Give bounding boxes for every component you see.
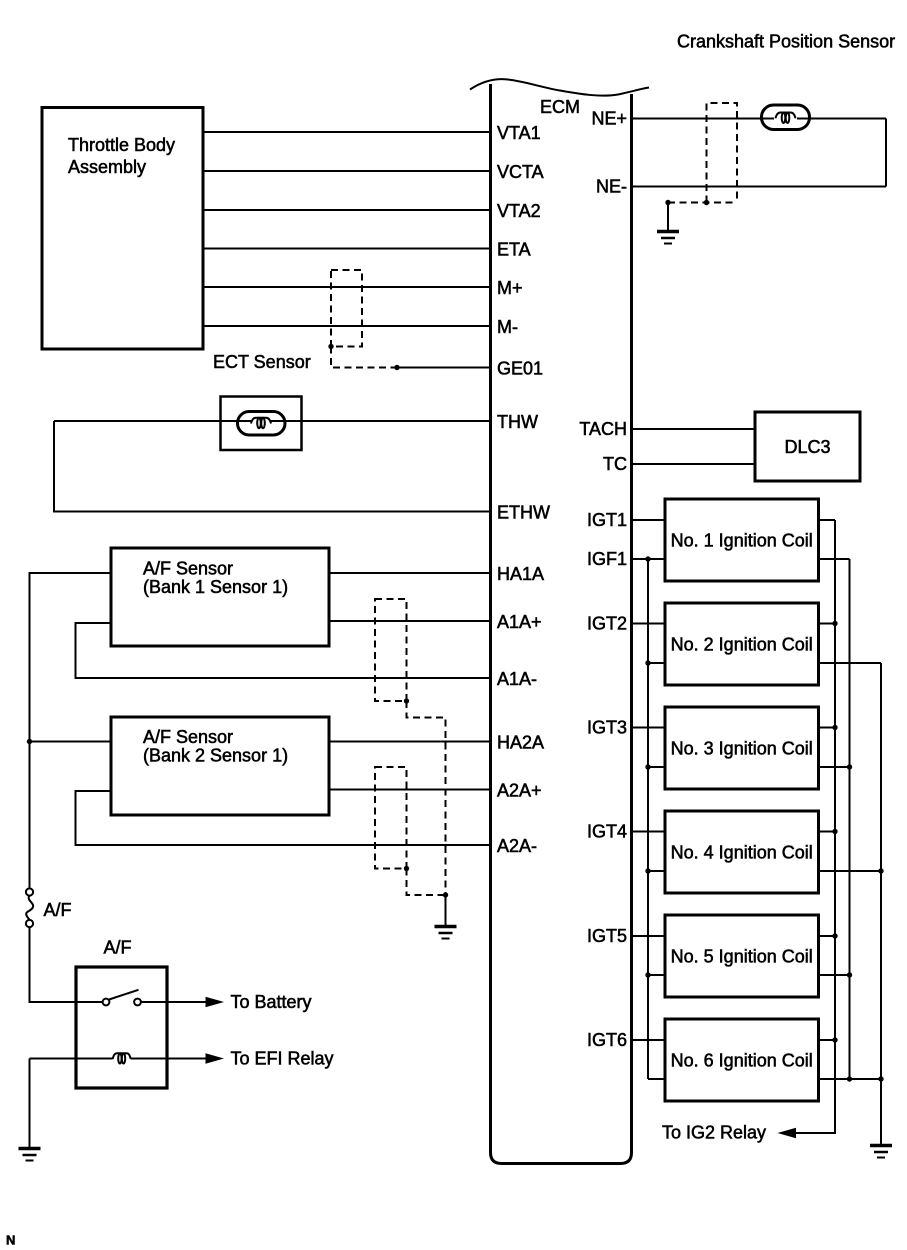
fuse A/F terminal bottom [26,920,33,927]
wire coil3 ground pin [819,766,850,768]
fuse A/F element squiggle [26,896,33,920]
ground (relay coil) [19,1149,41,1161]
wire coil2 ground pin [819,662,882,664]
wire ECT return (left leg down) [54,421,491,512]
Throttle Body Assembly block [42,108,203,350]
ground (NE shield) [657,232,679,244]
ECM torn-top wave [470,79,649,95]
relay coil winding [113,1053,131,1063]
svg-text:No. 2 Ignition Coil: No. 2 Ignition Coil [671,635,813,655]
wire IGT3 [632,727,666,729]
shield drain wire (dashed) A1A [407,701,446,895]
wire GE01 [397,367,491,369]
node: bank2 heater tap [27,739,32,744]
wire A/F heater supply (bank1 left pin to fuse) [30,573,112,889]
wire IGF3 [648,766,665,768]
wire IGF5 [648,974,665,976]
svg-text:VTA2: VTA2 [497,201,541,221]
wire coil3 +B [819,727,836,729]
svg-text:TC: TC [603,454,627,474]
svg-text:A/F Sensor: A/F Sensor [143,727,233,747]
node: IGF bus tap 3 [645,764,650,769]
wire coil5 ground pin [819,974,850,976]
svg-text:Assembly: Assembly [68,157,146,177]
relay switch contact left [103,999,110,1006]
node: gnd bus2 tap 3 [847,764,852,769]
svg-text:To EFI Relay: To EFI Relay [231,1049,334,1069]
svg-text:A/F: A/F [44,900,72,920]
svg-text:M+: M+ [497,278,523,298]
svg-text:NE-: NE- [596,177,627,197]
wire HA1A [329,572,491,574]
wire TC [632,463,756,465]
wire coil6 +B [819,1039,836,1041]
wire NE+ [632,118,887,120]
wire IGT4 [632,831,666,833]
wire NE loop right side [885,119,887,187]
svg-text:TACH: TACH [579,419,627,439]
svg-text:No. 3 Ignition Coil: No. 3 Ignition Coil [671,739,813,759]
wire HA2A [329,741,491,743]
wire relay coil feed [30,1058,208,1060]
svg-text:N: N [6,1233,15,1248]
svg-text:IGT3: IGT3 [587,718,627,738]
wire IGT6 [632,1039,666,1041]
wire THW [54,420,491,422]
wire VTA1 [203,131,491,133]
wire relay coil to ground [29,1059,31,1148]
svg-text:IGT4: IGT4 [587,822,627,842]
svg-text:ECT Sensor: ECT Sensor [213,352,311,372]
No. 4 Ignition Coil block [665,811,819,893]
node: A1A shield drain [404,698,409,703]
arrow to IG2 relay [778,1128,797,1138]
svg-text:No. 4 Ignition Coil: No. 4 Ignition Coil [671,843,813,863]
node: +B bus tap 2 [832,621,837,626]
node: NE shield corner [704,200,709,205]
relay A/F block [76,967,167,1088]
svg-text:IGT2: IGT2 [587,614,627,634]
No. 5 Ignition Coil block [665,915,819,997]
svg-text:ETHW: ETHW [497,503,550,523]
wire fuse to relay switch [30,927,103,1002]
svg-text:IGT5: IGT5 [587,926,627,946]
ECT sensor element (pill) [238,412,286,436]
wire IGF6 (bus end corner) [648,1078,665,1080]
wire coil1 ground pin [819,558,850,560]
No. 3 Ignition Coil block [665,707,819,789]
svg-text:A/F: A/F [104,938,132,958]
node: gnd bus3 tap 4 [878,868,883,873]
svg-text:To IG2 Relay: To IG2 Relay [662,1123,766,1143]
node: gnd bus3 tap 6 [878,1076,883,1081]
ground bus2 (coils) [849,559,851,1079]
wire IGF1 [632,558,666,560]
wire IGT1 [632,519,666,521]
wire VTA2 [203,209,491,211]
wire bank2 heater feed [30,741,112,743]
shield drain wire (dashed) NE [668,202,737,204]
node: A2A shield drain [404,866,409,871]
arrow to EFI relay [206,1053,225,1063]
wire IGT5 [632,935,666,937]
wire coil2 +B [819,623,836,625]
node: IGF bus tap 5 [645,972,650,977]
shield (dashed) around A1A wires [375,599,407,701]
wire coil4 ground pin [819,870,882,872]
wire M- [203,325,491,327]
ECM body U1 [491,84,632,1164]
A/F Sensor Bank 1 block [111,548,329,646]
node: IGF bus tap 4 [645,868,650,873]
svg-text:VTA1: VTA1 [497,123,541,143]
shield drain wire (dashed) to GE01 [331,347,397,368]
wire coil6 ground pin [819,1078,882,1080]
wire TACH [632,428,756,430]
node: shield drain join [443,892,448,897]
svg-text:Throttle Body: Throttle Body [68,135,175,155]
NE shield ground stem [667,203,669,231]
relay switch blade [109,990,139,1000]
node: shield drain corner [328,344,333,349]
svg-text:M-: M- [497,317,518,337]
node: +B bus tap 5 [832,933,837,938]
svg-text:(Bank 1 Sensor 1): (Bank 1 Sensor 1) [143,577,288,597]
svg-text:DLC3: DLC3 [784,437,830,457]
shield (dashed) around A2A wires [375,767,407,869]
svg-text:No. 6 Ignition Coil: No. 6 Ignition Coil [671,1051,813,1071]
svg-text:NE+: NE+ [591,109,627,129]
wire switch to battery arrow [141,1001,207,1003]
shield (dashed) around NE wires [707,103,738,203]
svg-text:HA1A: HA1A [497,564,544,584]
crankshaft sensor coil squiggle [776,113,796,124]
node: IGF bus tap 2 [645,660,650,665]
crankshaft sensor element (pill) [762,105,810,130]
svg-text:ECM: ECM [540,97,580,117]
node: GE01 drain junction [394,365,399,370]
shield (dashed) around M+/M- wires [331,270,362,347]
shield drain wire (dashed) A2A [407,869,446,896]
A/F Sensor Bank 2 block [111,717,329,815]
wire coil5 +B [819,935,836,937]
svg-text:A1A-: A1A- [497,669,537,689]
wire A1A- (wrap from bank1 left pin) [76,623,491,678]
svg-text:GE01: GE01 [497,359,543,379]
node: NE shield drain [665,200,670,205]
DLC3 block [755,412,860,481]
arrow to battery [206,997,225,1007]
wire coil4 +B [819,831,836,833]
svg-text:HA2A: HA2A [497,733,544,753]
svg-text:No. 5 Ignition Coil: No. 5 Ignition Coil [671,947,813,967]
ECT sensor block [221,397,302,451]
node: gnd bus2 tap 5 [847,972,852,977]
svg-text:(Bank 2 Sensor 1): (Bank 2 Sensor 1) [143,746,288,766]
No. 2 Ignition Coil block [665,603,819,685]
svg-text:To Battery: To Battery [231,992,312,1012]
wire IGT2 [632,623,666,625]
svg-text:A2A-: A2A- [497,836,537,856]
ground bus3 (coils) [880,663,882,1145]
svg-text:VCTA: VCTA [497,162,544,182]
svg-text:IGT6: IGT6 [587,1030,627,1050]
svg-text:A/F Sensor: A/F Sensor [143,559,233,579]
ground (A/F shields) [435,927,457,939]
ECT sensor coil squiggle [251,418,271,429]
wire ETA [203,248,491,250]
No. 1 Ignition Coil block [665,499,819,581]
svg-text:A1A+: A1A+ [497,612,542,632]
ground (ignition coils) [870,1146,892,1158]
No. 6 Ignition Coil block [665,1019,819,1101]
wire coil1 +B [819,519,836,521]
svg-text:Crankshaft Position Sensor: Crankshaft Position Sensor [677,32,895,52]
svg-text:IGF1: IGF1 [587,549,627,569]
node: +B bus tap 6 [832,1037,837,1042]
wire A2A- (wrap from bank2 left pin) [76,791,491,845]
+B bus to IG2 relay [796,520,835,1133]
node: gnd bus2 end [847,1076,852,1081]
svg-text:No. 1 Ignition Coil: No. 1 Ignition Coil [671,531,813,551]
IGF bus (common feedback line) [647,559,649,1079]
fuse A/F terminal top [26,888,33,895]
svg-text:IGT1: IGT1 [587,510,627,530]
wire M+ [203,286,491,288]
wire NE- [632,186,887,188]
shield ground stem [445,895,447,926]
svg-text:ETA: ETA [497,240,531,260]
relay switch contact right [134,999,141,1006]
svg-text:A2A+: A2A+ [497,781,542,801]
svg-text:THW: THW [497,412,538,432]
node: IGF bus tap 1 [645,556,650,561]
wire A1A+ [329,620,491,622]
node: +B bus tap 3 [832,725,837,730]
wire VCTA [203,170,491,172]
wire IGF2 [648,662,665,664]
wire A2A+ [329,789,491,791]
node: +B bus tap 4 [832,829,837,834]
wire IGF4 [648,870,665,872]
